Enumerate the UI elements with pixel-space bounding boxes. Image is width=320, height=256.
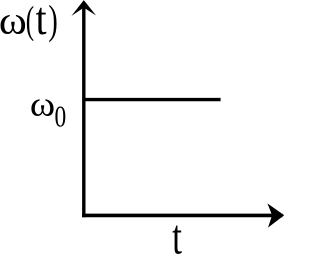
svg-text:0: 0 <box>54 98 66 133</box>
svg-text:t: t <box>36 0 47 45</box>
svg-text:ω: ω <box>0 0 27 42</box>
svg-text:): ) <box>48 0 57 43</box>
svg-text:ω: ω <box>30 84 55 123</box>
x-axis arrowhead <box>267 203 284 227</box>
svg-text:(: ( <box>26 0 34 42</box>
svg-text:t: t <box>172 211 182 256</box>
omega0 level line <box>84 98 221 101</box>
y-axis <box>82 3 85 218</box>
x-axis <box>82 214 282 218</box>
y-axis arrowhead <box>72 0 97 16</box>
